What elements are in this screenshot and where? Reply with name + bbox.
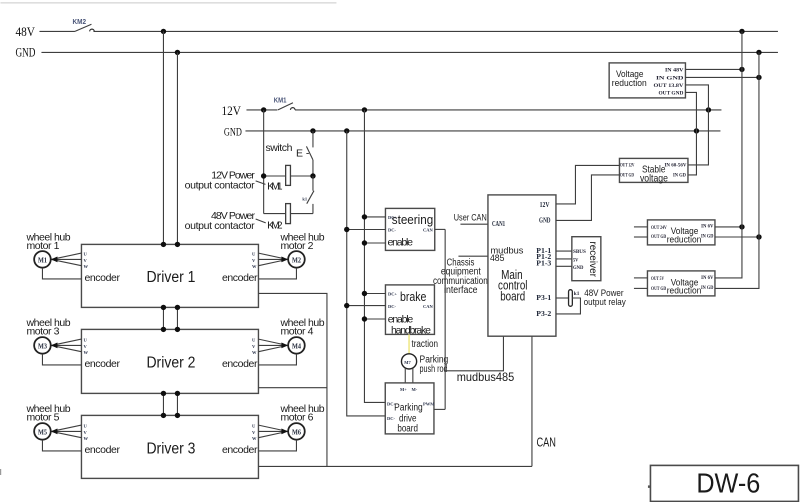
svg-text:5V: 5V bbox=[573, 259, 579, 264]
svg-text:OUT 13.8V: OUT 13.8V bbox=[653, 84, 683, 89]
wire steering DC- bbox=[344, 227, 385, 232]
junction dot 12V/contactor ladder bbox=[261, 107, 266, 112]
svg-text:mudbus485: mudbus485 bbox=[457, 370, 515, 384]
wire vr1 IN48V to right bus bbox=[685, 67, 744, 72]
wire vr2 output stubs bbox=[634, 227, 648, 237]
pin labels U V W left D2 bbox=[83, 337, 88, 355]
junction dot KM1 row right bbox=[310, 173, 315, 178]
wire vr2 IN48V to right bus bbox=[715, 224, 745, 229]
svg-text:M5: M5 bbox=[38, 428, 47, 436]
svg-text:encoder: encoder bbox=[222, 444, 258, 456]
svg-text:IN 48V: IN 48V bbox=[665, 69, 684, 74]
svg-text:IN GD: IN GD bbox=[701, 235, 714, 240]
motor M7 parking push rod bbox=[401, 354, 416, 369]
wire 12V rail bbox=[246, 109, 721, 111]
label Voltage reduction 1 bbox=[612, 69, 647, 89]
svg-text:enable: enable bbox=[387, 237, 413, 249]
module brake box bbox=[385, 285, 434, 335]
svg-text:brake: brake bbox=[400, 290, 427, 304]
contactor KM1 bar bbox=[286, 165, 291, 185]
svg-text:M4: M4 bbox=[292, 342, 301, 350]
svg-text:IN GND: IN GND bbox=[656, 77, 684, 82]
svg-text:k1: k1 bbox=[302, 197, 308, 202]
svg-text:M7: M7 bbox=[404, 360, 411, 365]
stray mark at left page edge bbox=[0, 469, 1, 475]
wire M3 encoder bbox=[42, 354, 81, 365]
svg-text:M3: M3 bbox=[38, 342, 47, 350]
motor M5 bbox=[34, 423, 51, 440]
svg-text:motor 2: motor 2 bbox=[280, 240, 313, 252]
wire mudbus485 to main board bbox=[445, 336, 503, 371]
svg-text:Driver 3: Driver 3 bbox=[146, 441, 195, 458]
svg-text:CAN: CAN bbox=[423, 304, 433, 309]
wire right GND bus vertical bbox=[715, 52, 759, 288]
junction dot GND/switch E bbox=[310, 128, 315, 133]
svg-text:OUT GND: OUT GND bbox=[658, 92, 683, 97]
pin labels U V W left D3 bbox=[83, 423, 88, 441]
junction dot GND/right bus bbox=[756, 50, 761, 55]
wire M3 phase lines bbox=[51, 339, 81, 352]
svg-text:output contactor: output contactor bbox=[185, 220, 256, 232]
module voltage reduction 2 box bbox=[647, 220, 715, 245]
svg-text:reduction: reduction bbox=[667, 234, 702, 244]
label Voltage reduction 2 bbox=[667, 226, 702, 244]
module receiver box bbox=[572, 237, 601, 281]
wire M7 to parking board bbox=[405, 368, 413, 383]
switch E- blade bbox=[306, 131, 313, 176]
switch KM1 blade on 12V rail bbox=[278, 103, 295, 110]
svg-text:GND: GND bbox=[224, 125, 242, 139]
wire CAN bus horizontal bbox=[258, 465, 532, 467]
wire Driver2 CAN branch bbox=[258, 387, 327, 389]
wire KM2 contactor row bbox=[264, 213, 313, 215]
wire parking PWM to mudbus vertical bbox=[434, 408, 445, 410]
wire P1-1 to SBUS bbox=[556, 250, 572, 252]
svg-text:M2: M2 bbox=[292, 256, 301, 264]
svg-text:PWM: PWM bbox=[423, 401, 435, 406]
svg-text:Driver 2: Driver 2 bbox=[146, 355, 195, 372]
label mudbus 485 bbox=[490, 246, 524, 265]
wire M4 phase lines bbox=[258, 339, 288, 352]
label Parking push rod bbox=[420, 354, 449, 375]
svg-text:IN 6V: IN 6V bbox=[701, 276, 714, 281]
label wheel hub motor 5 bbox=[25, 403, 70, 424]
svg-text:CAN: CAN bbox=[423, 227, 433, 232]
wire M5 encoder bbox=[42, 440, 81, 451]
pin labels U V W right D2 bbox=[252, 337, 257, 355]
svg-text:traction: traction bbox=[411, 339, 438, 350]
motor M1 bbox=[34, 251, 51, 268]
wire CAN drop from main board bbox=[531, 336, 533, 466]
label wheel hub motor 3 bbox=[25, 317, 70, 338]
wire brake DC- bbox=[344, 303, 385, 308]
svg-text:W: W bbox=[83, 436, 88, 441]
svg-text:CAN1: CAN1 bbox=[492, 220, 506, 228]
wire steering enable bbox=[362, 240, 386, 245]
svg-text:485: 485 bbox=[490, 253, 505, 264]
label Voltage reduction 3 bbox=[667, 277, 702, 295]
svg-text:DC-: DC- bbox=[388, 227, 396, 232]
svg-text:reduction: reduction bbox=[612, 78, 647, 89]
junction dot 48V/right bus bbox=[739, 29, 744, 34]
junction dots driver power taps bbox=[161, 242, 180, 418]
wire vr1 OUTGND down to stable voltage bbox=[685, 92, 696, 174]
wire 48V vertical bus to Driver 1 bbox=[162, 31, 164, 244]
wire chassis interface into board bbox=[458, 255, 488, 257]
svg-text:board: board bbox=[397, 423, 418, 434]
pin labels U V W right D3 bbox=[252, 423, 257, 441]
svg-text:Parking: Parking bbox=[394, 403, 423, 414]
top border faint line bbox=[0, 2, 336, 4]
pin labels U V W right D1 bbox=[252, 251, 257, 269]
label wheel hub motor 1 bbox=[25, 231, 70, 252]
wire M6 phase lines bbox=[258, 425, 288, 438]
wire GND vertical bus to Driver 1 bbox=[176, 52, 178, 244]
svg-text:P3-1: P3-1 bbox=[536, 294, 552, 302]
svg-text:User CAN: User CAN bbox=[454, 213, 487, 224]
svg-text:M+: M+ bbox=[400, 387, 407, 392]
junction dot GND/bus2 bbox=[175, 50, 180, 55]
svg-text:IN GD: IN GD bbox=[701, 286, 714, 291]
module main control board box bbox=[488, 195, 556, 336]
label wheel hub motor 4 bbox=[279, 317, 324, 338]
svg-text:M1: M1 bbox=[38, 256, 47, 264]
svg-text:receiver: receiver bbox=[587, 241, 598, 277]
wire KM1 contactor row bbox=[264, 175, 313, 177]
svg-text:KM1: KM1 bbox=[267, 181, 283, 193]
contactor KM2 bar bbox=[286, 204, 291, 224]
svg-text:DC-: DC- bbox=[388, 304, 396, 309]
wire power stubs between Driver2 and Driver3 bbox=[163, 393, 177, 415]
svg-text:motor 4: motor 4 bbox=[280, 325, 313, 337]
junction dot GND/bus A bbox=[344, 128, 349, 133]
wire brake enable bbox=[362, 316, 386, 321]
wire M2 phase lines bbox=[258, 253, 288, 266]
wire bus B (12V) vertical bbox=[364, 110, 385, 403]
relay k1 bar bbox=[569, 290, 573, 307]
svg-text:motor 6: motor 6 bbox=[280, 411, 313, 423]
motor M2 bbox=[288, 251, 305, 268]
motor M4 bbox=[288, 337, 305, 354]
svg-text:KM2: KM2 bbox=[72, 17, 86, 26]
wire GND 12V-side rail bbox=[245, 130, 720, 132]
wire relay to P3-2 loop bbox=[556, 298, 581, 314]
wire M6 encoder bbox=[258, 440, 296, 451]
wire vr3 output stubs bbox=[634, 278, 648, 289]
label Chassis equipment communication interface bbox=[433, 257, 488, 296]
wire brake DC+ bbox=[362, 291, 386, 296]
svg-text:W: W bbox=[83, 264, 88, 269]
wire bus A (GND) vertical bbox=[347, 131, 386, 416]
wire steering DC+ bbox=[362, 214, 386, 219]
label 48V Power output relay bbox=[584, 288, 626, 308]
junction dot 12V/out13.8 bbox=[706, 107, 711, 112]
wire 48V rail bbox=[39, 30, 778, 32]
svg-text:interface: interface bbox=[444, 285, 478, 296]
svg-text:Driver 1: Driver 1 bbox=[146, 269, 195, 286]
svg-text:IN 6V: IN 6V bbox=[701, 225, 714, 230]
wire stable OUTGD to main board GND bbox=[556, 175, 620, 221]
wire User CAN into board bbox=[460, 223, 488, 225]
svg-text:12V: 12V bbox=[221, 103, 241, 118]
module parking drive board box bbox=[385, 383, 434, 434]
svg-text:OUT GD: OUT GD bbox=[651, 235, 666, 240]
junction dot KM1 row left bbox=[261, 173, 266, 178]
motor M6 bbox=[288, 423, 305, 440]
title block DW-6 box bbox=[650, 465, 798, 501]
svg-text:KM2: KM2 bbox=[267, 220, 283, 232]
svg-text:encoder: encoder bbox=[84, 444, 120, 456]
svg-text:encoder: encoder bbox=[84, 358, 120, 370]
motor M3 bbox=[34, 337, 51, 354]
label 48V Power output contactor bbox=[185, 210, 266, 232]
svg-text:handbrake: handbrake bbox=[391, 325, 431, 337]
driver U1 Driver 1 box bbox=[81, 244, 258, 307]
wire mudbus485 vertical bbox=[444, 229, 446, 409]
svg-text:DC-: DC- bbox=[387, 416, 395, 421]
wire M1 encoder bbox=[42, 268, 81, 279]
module stable voltage box bbox=[619, 158, 688, 182]
svg-text:OUT 24V: OUT 24V bbox=[651, 226, 667, 231]
svg-text:reduction: reduction bbox=[667, 286, 702, 296]
wire Driver1 CAN branch bbox=[258, 293, 327, 466]
svg-text:GND: GND bbox=[573, 266, 584, 271]
module voltage reduction 3 box bbox=[647, 271, 715, 296]
svg-text:voltage: voltage bbox=[640, 172, 668, 184]
wire vr2 INGD to right bus bbox=[715, 234, 762, 239]
label Main control board bbox=[498, 268, 527, 304]
svg-text:GND: GND bbox=[15, 44, 35, 59]
svg-text:P1-3: P1-3 bbox=[536, 260, 552, 268]
svg-text:SBUS: SBUS bbox=[573, 250, 586, 255]
svg-text:DW-6: DW-6 bbox=[696, 467, 760, 498]
wire power stubs between Driver1 and Driver2 bbox=[163, 307, 177, 329]
svg-text:CAN: CAN bbox=[536, 435, 556, 449]
svg-text:push rod: push rod bbox=[420, 364, 448, 375]
label Stable voltage bbox=[640, 164, 668, 185]
svg-text:board: board bbox=[500, 290, 525, 304]
svg-text:P3-2: P3-2 bbox=[536, 310, 552, 318]
wire GND rail bbox=[41, 51, 778, 53]
junction dot 48V/bus1 bbox=[161, 29, 166, 34]
wire vr1 OUT13.8V down to stable voltage bbox=[685, 85, 708, 165]
svg-text:W: W bbox=[252, 264, 257, 269]
svg-text:W: W bbox=[83, 350, 88, 355]
module voltage reduction 1 box bbox=[609, 63, 685, 98]
svg-text:48V: 48V bbox=[15, 24, 35, 39]
svg-text:OUT GD: OUT GD bbox=[651, 287, 666, 292]
stray mark left of title block bbox=[648, 485, 650, 488]
svg-text:encoder: encoder bbox=[222, 272, 258, 284]
wire vr1 INGND to right bus bbox=[685, 75, 761, 80]
svg-text:OUT GD: OUT GD bbox=[620, 174, 634, 179]
driver U3 Driver 3 box bbox=[81, 415, 258, 478]
svg-text:motor 1: motor 1 bbox=[26, 240, 59, 252]
wire M2 encoder bbox=[258, 268, 296, 279]
label wheel hub motor 2 bbox=[279, 231, 324, 252]
svg-text:OUT 12V: OUT 12V bbox=[620, 164, 635, 169]
wire contactor ladder left leg bbox=[263, 110, 265, 214]
pin labels U V W left D1 bbox=[83, 251, 88, 269]
module steering box bbox=[385, 208, 434, 250]
svg-text:DC+: DC+ bbox=[388, 215, 397, 220]
wire steering CAN to mudbus vertical bbox=[435, 228, 445, 230]
wire P1-2 to 5V bbox=[556, 258, 572, 260]
svg-text:IN 60-56V: IN 60-56V bbox=[664, 164, 686, 169]
svg-text:motor 5: motor 5 bbox=[26, 411, 59, 423]
svg-text:steering: steering bbox=[392, 213, 434, 227]
svg-text:M6: M6 bbox=[292, 428, 301, 436]
svg-text:k1: k1 bbox=[574, 292, 580, 297]
svg-text:IN GD: IN GD bbox=[673, 174, 686, 179]
svg-text:enable: enable bbox=[388, 313, 414, 325]
svg-text:GND: GND bbox=[539, 217, 551, 225]
svg-text:M-: M- bbox=[411, 387, 417, 392]
svg-text:switch: switch bbox=[265, 142, 292, 154]
wire P1-3 to GND bbox=[556, 265, 572, 267]
label wheel hub motor 6 bbox=[279, 403, 324, 424]
svg-text:W: W bbox=[252, 350, 257, 355]
svg-text:OUT 5V: OUT 5V bbox=[651, 277, 664, 282]
label Parking drive board bbox=[394, 403, 423, 435]
wire P3-1 to relay bbox=[556, 297, 569, 299]
wire right 48V bus vertical bbox=[715, 31, 742, 278]
svg-text:output contactor: output contactor bbox=[185, 180, 256, 192]
svg-text:12V: 12V bbox=[540, 201, 550, 209]
svg-text:DC+: DC+ bbox=[388, 291, 397, 296]
label 12V Power output contactor bbox=[185, 170, 266, 192]
svg-text:motor 3: motor 3 bbox=[26, 325, 59, 337]
wire M5 phase lines bbox=[51, 425, 81, 438]
svg-text:KM1: KM1 bbox=[274, 98, 287, 105]
wire M4 encoder bbox=[258, 354, 296, 365]
svg-text:encoder: encoder bbox=[222, 358, 258, 370]
driver U2 Driver 2 box bbox=[81, 329, 258, 393]
svg-text:output relay: output relay bbox=[584, 297, 626, 308]
wire M1 phase lines bbox=[51, 253, 81, 266]
svg-text:W: W bbox=[252, 436, 257, 441]
wire stable OUT12V to main board 12V bbox=[556, 165, 620, 204]
junction dot 12V/bus B bbox=[362, 107, 367, 112]
junction dot GND/outGND bbox=[694, 128, 699, 133]
wire traction yellow link bbox=[408, 334, 410, 353]
switch k1 blade bbox=[307, 176, 314, 214]
svg-text:encoder: encoder bbox=[84, 272, 120, 284]
switch KM2 blade on 48V rail bbox=[75, 24, 94, 31]
